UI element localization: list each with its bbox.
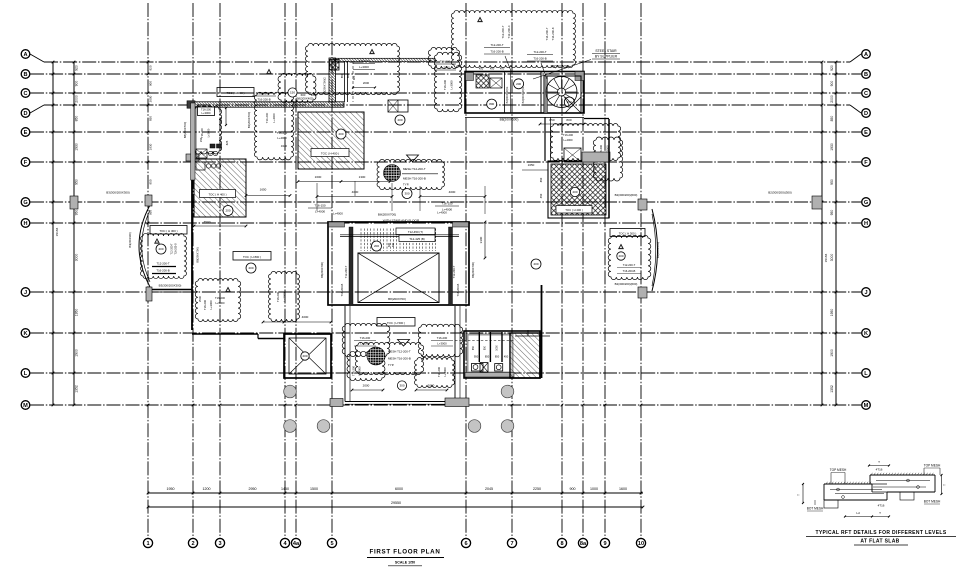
svg-text:TOC ( H-400 ): TOC ( H-400 )	[321, 152, 339, 156]
central block dark wall left	[349, 227, 353, 305]
grid line F horizontal	[30, 161, 861, 163]
svg-text:T: T	[878, 460, 880, 464]
fixture cluster topleft	[196, 149, 207, 158]
svg-text:TOC ( H 400 ): TOC ( H 400 )	[565, 208, 583, 212]
svg-text:950: 950	[149, 179, 153, 184]
svg-text:T16-150: T16-150	[314, 204, 326, 208]
right wing wall	[608, 119, 610, 218]
svg-text:TYP.: TYP.	[388, 363, 394, 367]
svg-text:STEEL STAIR: STEEL STAIR	[595, 49, 617, 53]
svg-text:T16-200: T16-200	[203, 299, 207, 310]
grid line B horizontal	[30, 73, 861, 75]
right room walls	[464, 331, 540, 378]
cloud C4 label box	[198, 107, 215, 116]
svg-text:A: A	[23, 52, 27, 58]
svg-text:2250: 2250	[533, 487, 541, 491]
warning triangle C6	[155, 239, 160, 243]
grid line J horizontal	[30, 291, 861, 293]
svg-text:600: 600	[392, 242, 395, 247]
stair room corner fill left	[466, 73, 474, 81]
svg-text:B8(200X700): B8(200X700)	[196, 247, 200, 262]
svg-text:1650: 1650	[528, 163, 535, 167]
stair treads and rail	[360, 229, 362, 252]
cloud C1	[451, 10, 575, 67]
cloud C3	[254, 92, 293, 160]
svg-text:B4(200X300): B4(200X300)	[128, 232, 132, 247]
central block outer walls	[328, 222, 469, 305]
svg-text:1200: 1200	[203, 487, 211, 491]
svg-text:B2(300/200)(600): B2(300/200)(600)	[615, 193, 638, 197]
svg-text:850: 850	[149, 116, 153, 121]
svg-text:T12-200-T: T12-200-T	[490, 43, 503, 47]
svg-text:920: 920	[75, 65, 79, 71]
mesh triangle 1	[407, 155, 419, 162]
grid line 2 vertical	[192, 3, 194, 538]
left margin gray stub 2	[145, 195, 152, 206]
svg-text:L+4000: L+4000	[315, 210, 325, 214]
svg-text:T16-200-7: T16-200-7	[545, 27, 549, 40]
circled 200 H2	[336, 129, 346, 139]
svg-text:G: G	[23, 200, 27, 206]
cloud C0	[305, 43, 399, 94]
svg-text:1050: 1050	[496, 345, 499, 351]
svg-text:AT FLAT SLAB: AT FLAT SLAB	[860, 539, 899, 545]
svg-text:T12-450 (T): T12-450 (T)	[408, 230, 423, 234]
circled 200 mid	[395, 115, 405, 125]
svg-text:TOP MESH: TOP MESH	[924, 464, 941, 468]
svg-text:TOC ( H 400 ): TOC ( H 400 )	[208, 193, 226, 197]
grid bubble A left	[21, 50, 30, 59]
svg-text:B8(200X700): B8(200X700)	[183, 122, 187, 139]
grid line C horizontal	[30, 92, 861, 94]
svg-text:TOC ( H 300 ): TOC ( H 300 )	[619, 232, 637, 236]
grid bubble L right	[862, 369, 871, 378]
warning triangle t1	[267, 69, 272, 73]
right room plumbing bars	[478, 332, 480, 362]
porch bottom wall	[345, 401, 462, 403]
svg-text:T16-200: T16-200	[443, 79, 447, 90]
circled 200 central	[372, 241, 382, 251]
label TOC H300 box	[217, 88, 254, 97]
stair room walls	[465, 72, 584, 114]
rot dim 4000 left	[302, 308, 304, 330]
svg-text:B4(200X500): B4(200X500)	[656, 242, 660, 259]
svg-text:200: 200	[338, 132, 343, 136]
mesh filled circle 2	[367, 347, 385, 365]
svg-text:9: 9	[603, 541, 606, 547]
grid line A horizontal	[30, 54, 44, 62]
bottom dimension line row1	[148, 492, 643, 494]
crosshatch slab	[551, 164, 606, 215]
svg-text:B: B	[864, 72, 868, 78]
svg-text:E: E	[24, 130, 28, 136]
right elevator	[510, 333, 540, 378]
cloud C9 body	[355, 342, 423, 374]
svg-text:T16-200: T16-200	[215, 296, 226, 300]
porch wall left	[344, 306, 346, 402]
svg-text:3500: 3500	[198, 295, 202, 302]
detail dims bottom	[845, 516, 872, 518]
stair room corner fill right	[575, 72, 584, 81]
svg-text:T16-200-B: T16-200-B	[490, 50, 503, 54]
svg-text:B8(200X500): B8(200X500)	[500, 118, 519, 122]
grid bubble F left	[21, 158, 30, 167]
svg-text:2000: 2000	[363, 384, 370, 388]
grid bubble D left	[21, 109, 30, 118]
grid bubble 3 bottom	[215, 538, 224, 547]
svg-text:TOC ( H 800 ): TOC ( H 800 )	[243, 255, 261, 259]
svg-text:825: 825	[225, 140, 229, 145]
cloud C4	[192, 106, 221, 154]
bottom dimension line row2	[148, 506, 643, 508]
grid line K horizontal	[30, 332, 861, 334]
svg-text:2000: 2000	[75, 95, 79, 103]
grid bubble 8 bottom	[557, 538, 566, 547]
svg-text:FIRST FLOOR PLAN: FIRST FLOOR PLAN	[369, 549, 440, 556]
svg-text:200: 200	[225, 209, 230, 213]
svg-text:150: 150	[290, 91, 295, 95]
ticks on column 1	[147, 61, 150, 64]
svg-text:L+3000: L+3000	[440, 66, 450, 70]
svg-text:T12-200-T: T12-200-T	[533, 50, 546, 54]
stair room inner wall	[504, 72, 506, 114]
svg-text:C: C	[23, 91, 27, 97]
svg-text:T16-200: T16-200	[201, 108, 212, 112]
column circle	[468, 420, 481, 433]
svg-text:B8(200X700): B8(200X700)	[471, 262, 475, 278]
cloud C5	[550, 124, 620, 161]
svg-text:L+3000: L+3000	[360, 342, 370, 346]
svg-text:T12-200-T: T12-200-T	[501, 25, 505, 38]
svg-text:T: T	[879, 511, 881, 515]
detail dim T top	[869, 465, 889, 467]
labels T12-450 boxes	[396, 228, 435, 235]
svg-text:T12-200-4: T12-200-4	[507, 25, 511, 38]
stair room x-box	[490, 78, 502, 88]
svg-text:800: 800	[489, 102, 494, 106]
svg-text:L+4000: L+4000	[358, 366, 362, 376]
svg-text:B2(300/200)(300): B2(300/200)(300)	[768, 191, 792, 195]
grid line G horizontal	[30, 201, 861, 203]
grid line 8 vertical	[561, 3, 563, 538]
svg-text:4T16: 4T16	[878, 504, 885, 508]
svg-text:G: G	[864, 200, 868, 206]
ticks on line M crossings	[147, 404, 150, 407]
svg-text:T16-200: T16-200	[563, 133, 574, 137]
svg-text:2: 2	[191, 541, 194, 547]
cloud C1 leaders	[505, 56, 511, 71]
left elevator shaft	[284, 334, 331, 378]
svg-text:L+5000: L+5000	[215, 301, 225, 305]
svg-text:T16-200: T16-200	[265, 112, 269, 123]
cloud C8	[269, 271, 300, 321]
circled 200 crosshatch	[570, 187, 579, 196]
svg-text:T16-200-B: T16-200-B	[257, 98, 270, 102]
svg-text:200: 200	[533, 262, 538, 266]
svg-text:L+4000: L+4000	[437, 211, 447, 215]
grid line 1 vertical	[147, 3, 149, 538]
rot dim central right	[484, 222, 486, 258]
left wall gray stub	[186, 154, 199, 161]
svg-text:B: B	[23, 72, 27, 78]
svg-text:15184: 15184	[55, 227, 59, 236]
svg-text:T12-200-T: T12-200-T	[623, 263, 636, 267]
dashed partition x353	[352, 61, 354, 102]
svg-text:T16-200: T16-200	[360, 336, 371, 340]
svg-text:4000: 4000	[449, 190, 456, 194]
grid line 9 vertical	[604, 3, 606, 538]
dim extension lines	[316, 183, 318, 211]
grid bubble E right	[862, 128, 871, 137]
svg-text:4000: 4000	[302, 315, 309, 319]
left wing outer wall	[191, 105, 193, 330]
svg-text:300: 300	[404, 192, 409, 196]
svg-text:900: 900	[830, 81, 834, 87]
svg-text:T16-150: T16-150	[441, 202, 453, 206]
svg-text:950: 950	[75, 210, 79, 216]
svg-text:1930: 1930	[149, 143, 153, 150]
vertical bar top box	[330, 60, 340, 71]
central block dark wall right	[449, 227, 453, 305]
label TOC H300 right	[610, 229, 645, 237]
bottom dimension ticks	[147, 492, 150, 495]
porch wall right	[454, 306, 456, 402]
circled 300 mesh1	[402, 189, 412, 199]
grid bubble C left	[21, 89, 30, 98]
mesh filled circle 1	[384, 165, 401, 182]
grid line L horizontal	[30, 372, 861, 374]
right margin dimension line a	[821, 62, 823, 405]
cloud C9 lobe B	[418, 324, 462, 357]
circled 200 stair hall	[514, 79, 524, 89]
circled 200 right mid	[531, 259, 541, 269]
svg-text:H: H	[23, 221, 27, 227]
mesh cloud 1	[377, 159, 445, 189]
svg-text:600: 600	[346, 73, 350, 78]
svg-text:M: M	[23, 403, 28, 409]
svg-text:TOC ( H 500 ): TOC ( H 500 )	[387, 321, 405, 325]
svg-text:MESH T16-200-B: MESH T16-200-B	[388, 357, 411, 361]
central block corner fills	[329, 222, 345, 227]
grid line H horizontal	[30, 222, 861, 224]
left wall gray fill	[191, 103, 195, 180]
svg-text:L+3000: L+3000	[283, 292, 287, 302]
svg-text:29550: 29550	[391, 501, 401, 505]
grid bubble L left	[21, 369, 30, 378]
svg-text:1900: 1900	[75, 349, 79, 357]
svg-text:1450: 1450	[281, 487, 289, 491]
wall pair x345	[344, 61, 346, 102]
svg-text:3000: 3000	[75, 254, 79, 262]
grid bubble D right	[862, 109, 871, 118]
circled 800 stair hall	[487, 99, 497, 109]
circled 200 H1	[223, 206, 233, 216]
svg-text:TOP MESH: TOP MESH	[830, 468, 847, 472]
circled 200 C10	[617, 252, 625, 260]
grid bubble J left	[21, 288, 30, 297]
cloud C9 left arm	[347, 351, 385, 380]
svg-text:B8(200X700): B8(200X700)	[378, 213, 396, 217]
svg-text:2950: 2950	[249, 487, 257, 491]
grid line 5 vertical	[331, 3, 333, 538]
right room bottom gray	[465, 373, 514, 378]
svg-text:TOC ( H 300 ): TOC ( H 300 )	[159, 229, 177, 233]
grid bubble K right	[862, 329, 871, 338]
svg-text:L+3000: L+3000	[443, 367, 447, 377]
svg-text:6000: 6000	[395, 487, 403, 491]
svg-text:T16-200: T16-200	[277, 131, 288, 135]
grid bubble H left	[21, 219, 30, 228]
cloud C7	[195, 279, 240, 322]
svg-text:T12-200-T: T12-200-T	[344, 265, 348, 278]
central stair x-rect	[358, 253, 439, 303]
svg-text:950: 950	[75, 179, 79, 185]
svg-text:850: 850	[830, 116, 834, 122]
left bay wall stub gray	[146, 287, 152, 301]
svg-text:200: 200	[572, 190, 577, 194]
svg-text:L: L	[24, 371, 28, 377]
label TOC H500 left bay	[150, 226, 187, 235]
right room top wall step	[515, 335, 550, 337]
svg-text:T16-200-B: T16-200-B	[175, 243, 178, 255]
svg-text:T12-200-T: T12-200-T	[156, 262, 169, 266]
svg-text:15184: 15184	[824, 253, 828, 262]
cloud C10	[608, 235, 651, 279]
cloud C1 lobe	[428, 47, 459, 68]
grid line M horizontal	[30, 404, 861, 406]
svg-text:800: 800	[566, 118, 571, 122]
svg-text:3300: 3300	[479, 236, 483, 243]
svg-text:3500: 3500	[204, 220, 211, 224]
svg-text:L+3000: L+3000	[209, 300, 213, 310]
svg-text:T16-200: T16-200	[200, 128, 204, 138]
svg-text:4T16: 4T16	[876, 468, 883, 472]
svg-text:J: J	[24, 290, 27, 296]
svg-text:T16-200: T16-200	[359, 59, 370, 63]
svg-text:850: 850	[340, 73, 344, 78]
svg-text:300: 300	[399, 384, 404, 388]
label TOC H800	[233, 252, 271, 261]
svg-text:T16-200-B: T16-200-B	[623, 269, 636, 273]
svg-text:1300: 1300	[359, 175, 366, 179]
circled 200 TOC800	[246, 263, 256, 273]
right bay gray stub top	[638, 199, 647, 210]
grid bubble 6 bottom	[461, 538, 470, 547]
svg-text:TYPICAL RFT DETAILS FOR DIFFER: TYPICAL RFT DETAILS FOR DIFFERENT LEVELS	[815, 530, 946, 536]
svg-text:F: F	[24, 160, 28, 166]
left bay window arc	[139, 205, 150, 287]
svg-text:8: 8	[560, 541, 563, 547]
svg-text:850: 850	[75, 116, 79, 122]
svg-text:B3(200X700): B3(200X700)	[247, 112, 251, 129]
svg-text:950: 950	[474, 355, 479, 359]
grid bubble 2 bottom	[188, 538, 197, 547]
svg-text:D: D	[864, 111, 868, 117]
svg-text:850: 850	[495, 355, 500, 359]
column circle	[317, 420, 330, 433]
grid bubble 8a bottom	[578, 538, 587, 547]
svg-text:10: 10	[638, 541, 644, 547]
crosshatch label box	[556, 206, 592, 214]
svg-text:1500: 1500	[310, 487, 318, 491]
svg-text:150: 150	[199, 137, 203, 142]
grid bubble C right	[862, 89, 871, 98]
svg-text:B8(200X400): B8(200X400)	[296, 97, 313, 101]
grid bubble A right	[862, 50, 871, 59]
stair room beam line	[465, 117, 584, 119]
circled 200 C6	[156, 244, 166, 254]
svg-text:900: 900	[570, 487, 576, 491]
svg-text:1600: 1600	[315, 175, 322, 179]
grid bubble F right	[862, 158, 871, 167]
detail slab section	[824, 483, 872, 485]
svg-text:L+3000: L+3000	[201, 111, 211, 115]
svg-text:H: H	[864, 221, 868, 227]
svg-text:TYP.: TYP.	[403, 183, 409, 187]
svg-text:B3(300/200X300): B3(300/200X300)	[106, 191, 130, 195]
grid bubble M left	[21, 401, 30, 410]
cloud C9 right lobe	[415, 358, 455, 388]
grid bubble E left	[21, 128, 30, 137]
svg-text:1950: 1950	[167, 487, 175, 491]
cloud C2	[434, 52, 461, 112]
svg-text:200: 200	[516, 82, 521, 86]
svg-text:1000: 1000	[219, 117, 223, 123]
circled 200 elevator	[301, 352, 309, 360]
svg-text:920: 920	[352, 75, 356, 80]
grid line 10 vertical	[640, 3, 642, 538]
svg-text:1930: 1930	[830, 143, 834, 151]
svg-text:1600: 1600	[619, 487, 627, 491]
grid bubble H right	[862, 219, 871, 228]
svg-text:C: C	[864, 91, 868, 97]
svg-text:3000: 3000	[830, 254, 834, 262]
svg-text:B2(300/200)(600): B2(300/200)(600)	[615, 282, 638, 286]
svg-text:BOT MESH: BOT MESH	[924, 500, 941, 504]
svg-text:1352: 1352	[75, 385, 79, 393]
svg-text:1: 1	[146, 541, 149, 547]
x-box right wing	[564, 148, 581, 162]
svg-text:1950: 1950	[75, 309, 79, 317]
svg-text:4a: 4a	[293, 541, 300, 547]
grid bubble 1 bottom	[143, 538, 152, 547]
stair room hatch box	[476, 75, 489, 88]
svg-text:T12-200-T: T12-200-T	[171, 243, 174, 255]
vertical bar	[329, 58, 336, 102]
dimension ticks at margin crossings	[52, 61, 55, 64]
right margin gray stub	[812, 196, 822, 209]
svg-text:200: 200	[248, 266, 253, 270]
svg-text:TOC ( H 300 ): TOC ( H 300 )	[226, 91, 244, 95]
svg-text:T16-200: T16-200	[276, 291, 280, 302]
grid bubble 5 bottom	[327, 538, 336, 547]
cloud C0 lobe	[278, 73, 316, 102]
svg-text:B3(200X700)G: B3(200X700)G	[323, 77, 327, 94]
svg-text:WITH STAIR AND FLOOR: WITH STAIR AND FLOOR	[383, 219, 420, 223]
detail dim T right	[941, 475, 943, 494]
svg-text:8a: 8a	[580, 541, 587, 547]
svg-text:BY SUPPLIER: BY SUPPLIER	[595, 55, 618, 59]
cloud C9 lobe A	[342, 323, 390, 356]
svg-text:950: 950	[830, 179, 834, 185]
left wing bottom wall	[192, 333, 258, 335]
svg-text:200: 200	[302, 354, 307, 358]
svg-text:6: 6	[464, 541, 467, 547]
hatched slab H2	[298, 112, 364, 169]
svg-text:1930: 1930	[75, 143, 79, 151]
svg-text:K: K	[864, 331, 868, 337]
grid line 6 vertical	[465, 3, 467, 538]
